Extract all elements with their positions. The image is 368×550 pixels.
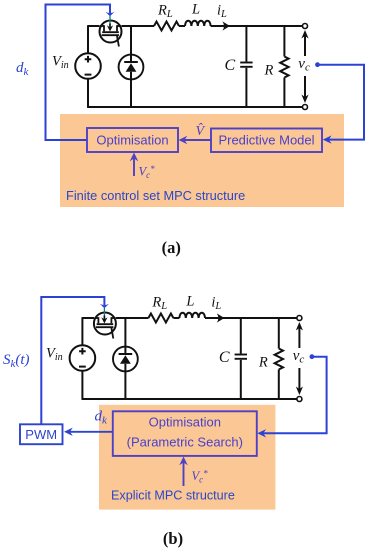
wire diode branch bottom	[130, 79, 132, 107]
svg-text:(Parametric Search): (Parametric Search)	[127, 435, 243, 450]
arrow Vc* into optimisation (b)	[183, 461, 185, 487]
wire capacitor branch bottom (b)	[240, 360, 242, 399]
wire bottom rail (b)	[82, 398, 297, 400]
resistor R (load)	[280, 57, 288, 78]
svg-text:vc: vc	[298, 56, 310, 74]
arrow optimisation to PWM with d_k	[68, 431, 113, 433]
wire vc feedback to predictive model	[318, 65, 365, 140]
svg-text:C: C	[225, 57, 236, 74]
diode D1	[119, 55, 144, 80]
wire diode branch top	[130, 25, 132, 55]
svg-text:Predictive Model: Predictive Model	[218, 133, 314, 148]
wire load branch top (b)	[278, 318, 280, 349]
svg-text:Optimisation: Optimisation	[149, 415, 221, 430]
block PWM	[20, 424, 63, 444]
inductor L	[185, 21, 211, 26]
MOSFET Q1 body arrow	[109, 24, 111, 28]
resistor R load (b)	[275, 349, 283, 370]
diode D2	[113, 347, 138, 372]
arrow Vc* reference into optimisation	[133, 157, 135, 177]
svg-text:C: C	[219, 349, 230, 366]
svg-text:R: R	[258, 355, 268, 371]
MOSFET Q2 body arrow	[103, 316, 105, 320]
output terminal bottom (b)	[297, 397, 302, 402]
wire top rail L to terminal (b)	[205, 317, 297, 319]
svg-text:vc: vc	[293, 348, 305, 366]
wire bottom rail	[88, 106, 303, 108]
svg-text:RL: RL	[157, 3, 173, 21]
resistor R_L (b)	[148, 314, 173, 323]
gate arrowhead	[105, 12, 114, 16]
gate arrowhead (b)	[100, 304, 109, 308]
svg-text:PWM: PWM	[25, 427, 57, 442]
MOSFET Q1 body circle	[100, 21, 122, 43]
svg-text:Sk(t): Sk(t)	[3, 352, 30, 370]
inductor L (b)	[179, 313, 205, 318]
wire d_k feedback: optimisation output to MOSFET gate	[46, 5, 111, 141]
wire load branch bottom	[283, 78, 285, 108]
wire top rail MOSFET to R_L	[121, 25, 154, 27]
wire top rail left (b)	[82, 317, 94, 319]
wire vc feedback to optimisation (b)	[261, 357, 327, 434]
source Vin (b)	[70, 345, 96, 371]
wire load branch bottom (b)	[278, 370, 280, 400]
node vc sense dot	[315, 62, 320, 67]
svg-text:L: L	[191, 2, 200, 18]
wire Vin branch top	[87, 25, 89, 53]
arrowhead into optimisation (b)	[257, 429, 266, 437]
block Optimisation (Parametric Search)	[113, 411, 257, 456]
svg-text:Explicit MPC structure: Explicit MPC structure	[111, 489, 235, 503]
wire top rail MOSFET to R_L (b)	[116, 317, 149, 319]
svg-text:(b): (b)	[163, 529, 183, 548]
output terminal top (b)	[297, 316, 302, 321]
wire diode branch top (b)	[124, 317, 126, 347]
svg-text:iL: iL	[217, 3, 227, 21]
svg-text:(a): (a)	[162, 238, 181, 257]
wire top rail L to output terminal, with i_L arrow	[211, 25, 303, 27]
wire Vin branch bottom	[87, 78, 89, 108]
svg-text:iL: iL	[211, 295, 221, 313]
capacitor C (b)	[235, 354, 247, 356]
wire load branch top	[283, 26, 285, 57]
wire Vin branch bottom (b)	[81, 370, 83, 400]
vc measurement arrow (upper half)	[304, 34, 306, 56]
vc measurement arrow upper (b)	[298, 326, 300, 348]
MOSFET Q2 body circle	[94, 313, 116, 335]
svg-text:V̂: V̂	[196, 123, 206, 139]
svg-text:RL: RL	[151, 295, 167, 313]
vc measurement arrow (lower half)	[304, 76, 306, 99]
svg-text:dk: dk	[16, 60, 30, 78]
wire between R_L and L (b)	[173, 317, 179, 319]
wire between R_L and L	[179, 25, 185, 27]
wire capacitor branch top (b)	[240, 318, 242, 354]
shaded MPC region (b)	[99, 405, 275, 510]
MOSFET Q1 internal symbol	[100, 25, 121, 46]
wire diode branch bottom (b)	[124, 371, 126, 399]
output terminal bottom	[303, 105, 308, 110]
arrow predictive model to optimisation	[183, 139, 212, 141]
svg-text:Optimisation: Optimisation	[96, 133, 168, 148]
svg-text:Vin: Vin	[52, 54, 69, 72]
MOSFET Q1 gate stub (teal)	[109, 16, 111, 26]
wire capacitor branch top	[245, 26, 247, 62]
shaded MPC region (a)	[60, 114, 344, 207]
current arrow i_L	[222, 21, 230, 30]
arrowhead into predictive model	[323, 135, 332, 143]
source Vin	[75, 53, 101, 79]
wire top rail left (Vin top to MOSFET)	[88, 25, 100, 27]
wire Sk(t): PWM output to MOSFET gate	[41, 297, 104, 424]
MOSFET Q2 internal symbol	[94, 317, 115, 338]
svg-text:Finite control set MPC structu: Finite control set MPC structure	[66, 188, 245, 203]
capacitor C	[240, 62, 252, 64]
wire Vin branch top (b)	[81, 317, 83, 345]
output terminal top	[303, 24, 308, 29]
svg-text:L: L	[185, 294, 194, 310]
block Predictive Model	[211, 129, 322, 153]
block Optimisation (a)	[87, 128, 178, 152]
MOSFET Q2 gate stub	[103, 308, 105, 318]
node vc sense dot (b)	[310, 354, 315, 359]
current arrow i_L (b)	[217, 313, 225, 322]
resistor R_L	[154, 22, 179, 31]
svg-text:R: R	[264, 63, 274, 79]
vc measurement arrow lower (b)	[298, 368, 300, 391]
wire capacitor branch bottom	[245, 68, 247, 107]
svg-text:Vin: Vin	[46, 346, 63, 364]
